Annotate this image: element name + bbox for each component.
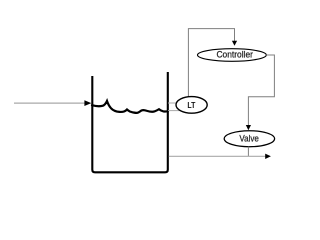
liquid level wavy line <box>92 101 168 113</box>
wire inlet line <box>14 102 85 104</box>
valve <box>224 131 274 147</box>
wire tank tap stub lower <box>168 110 180 112</box>
wire valve to outlet line <box>247 147 249 157</box>
inlet arrowhead <box>84 100 91 106</box>
arrowhead into controller <box>232 41 237 46</box>
arrowhead into valve <box>246 125 251 130</box>
wire tank tap stub upper <box>168 102 180 104</box>
wire LT to controller feedback <box>188 29 234 97</box>
tank vessel <box>92 72 168 172</box>
wire outlet line <box>169 155 266 157</box>
svg-text:LT: LT <box>187 101 195 110</box>
svg-text:Valve: Valve <box>239 134 259 144</box>
outlet arrowhead <box>265 154 271 159</box>
wire controller to valve <box>248 55 274 125</box>
svg-text:Controller: Controller <box>216 50 253 60</box>
controller <box>198 49 267 62</box>
level transmitter LT <box>176 97 207 114</box>
